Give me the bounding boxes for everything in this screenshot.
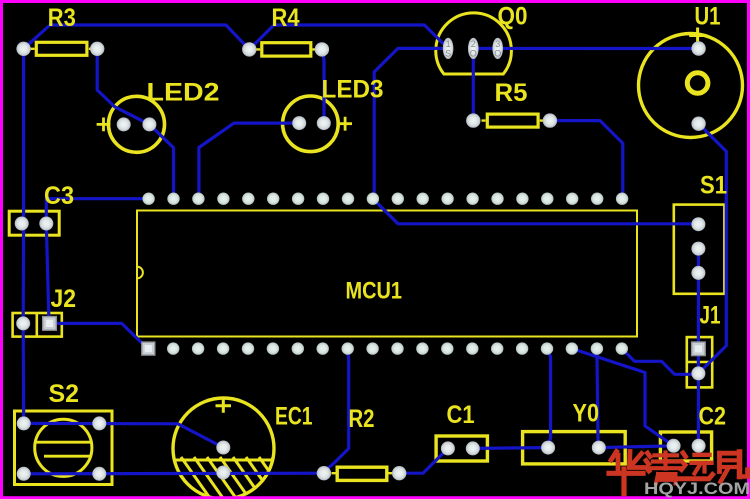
svg-text:R4: R4 <box>272 4 300 32</box>
svg-text:O: O <box>470 49 477 59</box>
svg-text:J1: J1 <box>700 302 721 330</box>
svg-text:HQYJ.COM: HQYJ.COM <box>644 480 750 498</box>
watermark hua character <box>609 452 643 494</box>
wire R5.2 to MCU pin 20 <box>550 121 623 199</box>
MCU1 bottom pad row <box>167 342 628 354</box>
pads S1 <box>691 217 705 280</box>
pads C1 <box>441 441 480 455</box>
wire LED2.2 to MCU pin 2 <box>149 124 173 198</box>
pads R3 <box>16 42 104 56</box>
speaker U1 <box>639 28 743 138</box>
MCU1 top pad row (pins) <box>142 193 628 205</box>
pads C3 <box>15 217 54 231</box>
wire C3.2 to J2.2 <box>46 224 49 324</box>
transistor Q0 <box>436 13 512 74</box>
svg-text:S2: S2 <box>49 380 80 408</box>
svg-text:LED2: LED2 <box>147 78 220 106</box>
svg-text:S1: S1 <box>700 172 727 200</box>
svg-text:3: 3 <box>495 39 500 49</box>
wire bottom bus S2-EC1-R2 <box>24 472 324 476</box>
pads Q0 pins 1 2 3 <box>443 38 503 59</box>
wire MCU pin 24 to Y0.1 <box>547 349 550 447</box>
svg-text:1: 1 <box>446 39 451 49</box>
pads LED2 <box>117 117 157 131</box>
capacitor C2 <box>660 432 711 461</box>
pads LED3 <box>292 116 331 130</box>
LED LED3 <box>283 96 352 152</box>
wire S1.2-S1.3-J1-C2.2 vertical <box>697 249 700 446</box>
wire Q0.2 to R5.1 <box>472 48 475 120</box>
switch S1 <box>674 205 725 294</box>
wire R3.2 to LED2.2 <box>97 49 149 125</box>
watermark yuan character <box>680 453 713 479</box>
wire Q0.2-Q0.3 to U1.1 <box>473 47 698 50</box>
pads C2 <box>667 439 706 453</box>
resistor R3 <box>31 42 93 55</box>
capacitor EC1 <box>142 398 329 499</box>
svg-text:2: 2 <box>471 39 476 49</box>
svg-text:J2: J2 <box>51 285 77 313</box>
wire MCU pin 10 to S1.1 <box>373 199 699 224</box>
wire Q0.1 to MCU pin 10 <box>374 48 448 198</box>
svg-text:C1: C1 <box>447 401 475 429</box>
svg-text:LED3: LED3 <box>322 75 384 103</box>
IC MCU1 <box>137 211 637 337</box>
wire MCU pin 22 to Y0.2 <box>597 349 598 447</box>
svg-text:R5: R5 <box>495 79 528 107</box>
watermark HQYJ.COM <box>644 480 750 498</box>
MCU1 pin 1 square pad <box>142 342 155 355</box>
capacitor C1 <box>436 436 487 461</box>
wire MCU pin 23 to C2.1 <box>572 349 674 446</box>
watermark qing character <box>646 453 680 484</box>
wire C3.2 to MCU pin 1 row <box>46 199 148 224</box>
svg-text:MCU1: MCU1 <box>346 277 403 304</box>
wire MCU pin 32 to R2.1 <box>324 349 349 472</box>
svg-text:Q0: Q0 <box>498 3 528 31</box>
pads EC1 <box>216 441 230 480</box>
pads J1 square and round <box>691 342 705 380</box>
pads Y0 <box>541 441 606 455</box>
wire R3.1 to R4.1 to Q0.1 top bus <box>24 25 449 49</box>
LED LED2 <box>97 96 165 152</box>
resistor R4 <box>256 43 316 56</box>
pads R4 <box>242 42 329 56</box>
crystal Y0 <box>523 432 626 464</box>
svg-text:C2: C2 <box>699 403 727 431</box>
pads R2 <box>317 466 407 480</box>
svg-text:Y0: Y0 <box>573 399 600 427</box>
pads J2 round and square <box>16 316 56 330</box>
svg-text:C3: C3 <box>44 182 74 210</box>
svg-text:U1: U1 <box>695 3 721 31</box>
wire S2 top bus to EC1.1 <box>24 423 224 447</box>
pads S2 <box>17 416 107 480</box>
capacitor C3 <box>9 211 59 235</box>
svg-text:O: O <box>494 49 501 59</box>
pads R5 <box>466 113 557 127</box>
pads U1 <box>691 41 705 131</box>
jumper J2 <box>13 313 62 337</box>
svg-text:R3: R3 <box>48 4 76 32</box>
wire U1.2 to J1.2 <box>698 124 726 374</box>
wire J2.2 to MCU pin 40 (square) <box>50 323 148 348</box>
wire LED3.1 to MCU pin 3 <box>199 123 299 199</box>
wire C1.2 to Y0.1 <box>473 446 548 450</box>
wire MCU pin 21 to J1.2 <box>622 349 699 375</box>
wire left vertical bus R3.1-C3.1-J2.1-S2 <box>22 49 26 424</box>
svg-text:R2: R2 <box>349 405 375 433</box>
jumper J1 <box>687 337 712 387</box>
wire R2.2 to C1.1 <box>399 448 448 473</box>
wire Y0.2 to C2.1 <box>599 446 674 448</box>
resistor R5 <box>482 114 544 127</box>
resistor R2 <box>332 467 393 480</box>
svg-text:EC1: EC1 <box>275 403 313 431</box>
wire R4.2 to LED3.2 <box>322 49 324 123</box>
watermark jian character <box>720 452 748 482</box>
svg-text:S: S <box>445 49 451 59</box>
switch S2 <box>15 411 113 485</box>
